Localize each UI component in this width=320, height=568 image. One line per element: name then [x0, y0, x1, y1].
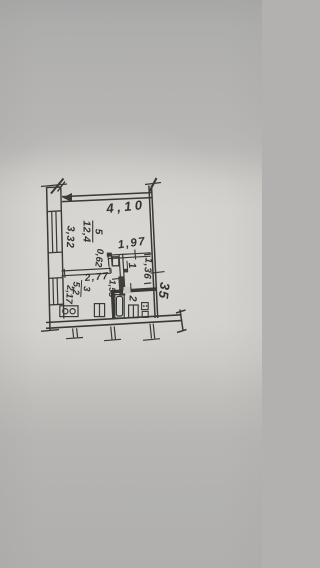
- label kitchen fraction 3/5,2: [70, 279, 92, 297]
- bathtub: [115, 295, 124, 318]
- right wall: [149, 186, 158, 319]
- tick on wall A: [134, 250, 137, 260]
- window 2 bottom sill: [49, 303, 63, 306]
- pier 1 bottom sill: [47, 210, 61, 213]
- interior wall A: room5 / hall: [108, 253, 151, 259]
- kitchen sink cabinet: [94, 304, 104, 317]
- wall B jamb: [108, 255, 112, 267]
- bath door frame ticks: [123, 283, 131, 291]
- text 3,32: [64, 225, 77, 248]
- wall D dark lower fill (vent shaft): [118, 276, 125, 296]
- kitchen stove with burners: [60, 306, 78, 317]
- left wall inner line: [61, 188, 64, 319]
- door opening thin line: [108, 267, 111, 272]
- wall stub leg 1 below bottom wall: [66, 328, 83, 339]
- vent box with dots: [142, 303, 149, 318]
- left wall bottom foot tick: [41, 330, 59, 332]
- interior wall E: bath north (thick): [111, 289, 157, 292]
- interior wall C: kitchen north: [62, 268, 112, 276]
- left wall top cap: [47, 186, 61, 189]
- top wall (4.10 side): [62, 193, 152, 202]
- arrow at top wall left joint: [63, 193, 73, 202]
- dim tick on right wall (35 mark): [151, 272, 165, 274]
- door jamb rect (hall door): [112, 257, 118, 266]
- dim arrows for 1,36: [144, 254, 151, 284]
- window 2 glazing lines: [53, 278, 58, 305]
- left wall outer line: [47, 187, 50, 330]
- text 0,62: [92, 248, 105, 268]
- window 1 glazing lines: [52, 211, 57, 252]
- text 2,17: [63, 284, 76, 305]
- window 1 bottom sill: [48, 251, 62, 254]
- text 1,36: [141, 257, 153, 280]
- label room 5 fraction 5/12,4: [80, 220, 104, 242]
- top-right wall break tick: [145, 178, 161, 192]
- dim arrow tick for 1,55: [112, 277, 119, 280]
- label hall 1: [126, 260, 139, 272]
- bottom wall: [46, 315, 181, 329]
- wall stub leg 2 below bottom wall: [104, 326, 121, 340]
- bath door gap in wall E: [123, 287, 131, 293]
- interior wall F: bath west (thick): [112, 291, 113, 319]
- interior wall D: hall west: [119, 254, 125, 291]
- door stop mark on wall D: [123, 269, 128, 273]
- toilet: [129, 305, 139, 318]
- dim tick at wall C left end: [63, 269, 66, 278]
- dark corner at wall A left end: [107, 253, 112, 257]
- label bath 2: [126, 294, 138, 301]
- text 1,55: [107, 280, 118, 299]
- right wall stub leg below bottom wall: [143, 324, 160, 341]
- bottom wall right end break tick: [176, 310, 187, 333]
- pier 2 bottom sill: [48, 277, 62, 280]
- text 35 house number: [156, 281, 173, 300]
- top-left wall break tick: [41, 179, 67, 194]
